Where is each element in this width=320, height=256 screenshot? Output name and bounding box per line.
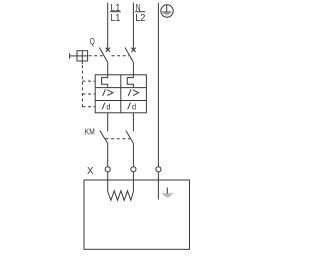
- svg-text:Q: Q: [90, 37, 95, 47]
- wire terminal to load pole 2: [132, 172, 134, 192]
- wire terminal to load PE: [157, 172, 159, 200]
- wire PE incoming: [157, 3, 159, 167]
- contactor linkage dashed: [106, 138, 131, 140]
- thermal overload element pole 1: [102, 75, 108, 88]
- contactor KM pole 1: [100, 131, 108, 167]
- terminal X circle 3: [156, 167, 161, 172]
- magnetic trip I> pole 2: [128, 89, 138, 96]
- wire terminal to load pole 1: [107, 172, 109, 192]
- svg-text:d: d: [106, 102, 110, 112]
- svg-text:KM: KM: [85, 128, 95, 137]
- magnetic trip I> pole 1: [103, 89, 113, 96]
- differential trip Id pole 1: [102, 102, 111, 112]
- breaker trip linkage dashed: [82, 56, 129, 107]
- PE protective-earth symbol: [161, 5, 173, 17]
- differential trip Id pole 2: [128, 102, 137, 112]
- thermal overload element pole 2: [127, 75, 133, 88]
- terminal X circle 2: [131, 167, 136, 172]
- trip unit box: [95, 75, 146, 113]
- breaker pole 2 contact: [125, 48, 136, 75]
- svg-text:L1: L1: [111, 13, 121, 24]
- wire N incoming: [132, 3, 134, 49]
- svg-text:X: X: [87, 166, 93, 177]
- label N/L2: [135, 3, 146, 24]
- breaker Q handle: [70, 51, 88, 64]
- label L1/L1: [111, 3, 121, 24]
- load box: [84, 180, 190, 249]
- breaker pole 1 contact: [99, 48, 110, 75]
- terminal X circle 1: [105, 167, 110, 172]
- earth symbol in load: [162, 188, 172, 198]
- wire breaker to contactor pole 2: [132, 113, 134, 132]
- svg-text:L2: L2: [135, 13, 146, 24]
- heater resistor element: [108, 191, 134, 201]
- svg-text:d: d: [132, 102, 136, 112]
- wire L1 incoming: [107, 3, 109, 49]
- contactor KM pole 2: [126, 131, 134, 167]
- wire breaker to contactor pole 1: [107, 113, 109, 132]
